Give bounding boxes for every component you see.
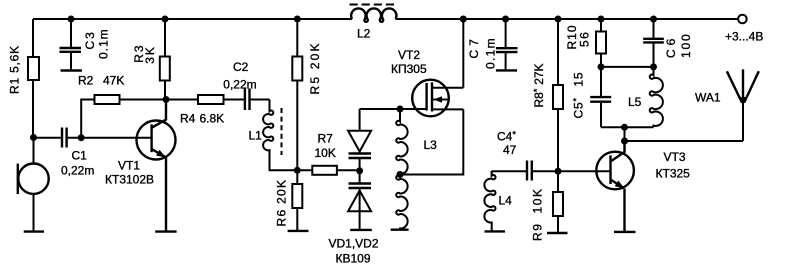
node C1 right / base junction	[78, 134, 85, 141]
inductor L4	[484, 171, 512, 231]
svg-text:6.8K: 6.8K	[200, 112, 225, 126]
svg-text:56: 56	[578, 31, 592, 47]
svg-text:КВ109: КВ109	[336, 252, 371, 266]
varicap VD1	[348, 131, 371, 158]
capacitor C3	[60, 19, 111, 69]
svg-text:R5 20K: R5 20K	[308, 41, 322, 94]
transistor VT1	[105, 100, 176, 231]
node collector/antenna	[621, 138, 628, 145]
ground under R9	[547, 232, 568, 234]
node collector VT1 junction	[163, 96, 170, 103]
svg-text:C5* 15: C5* 15	[572, 72, 586, 119]
wire varicap top / gate VT2	[360, 109, 427, 153]
svg-text:0.1m: 0.1m	[484, 37, 498, 69]
svg-text:VT3: VT3	[664, 150, 686, 164]
ground under C7	[496, 69, 517, 71]
svg-text:0.1m: 0.1m	[97, 28, 111, 59]
svg-text:0,22m: 0,22m	[223, 78, 256, 92]
svg-text:КП305: КП305	[391, 62, 427, 76]
svg-text:3K: 3K	[143, 45, 157, 64]
svg-text:C2: C2	[233, 60, 249, 74]
svg-text:L5: L5	[628, 95, 642, 109]
svg-text:47K: 47K	[103, 74, 124, 88]
svg-text:100: 100	[679, 33, 693, 58]
svg-text:C1: C1	[72, 149, 88, 163]
capacitor C2	[223, 60, 269, 110]
resistor R3	[132, 19, 170, 100]
node top rail C3	[68, 16, 75, 23]
wire tank top	[601, 66, 654, 68]
svg-text:C4*: C4*	[497, 130, 516, 144]
node R8/C4/R9/base VT3	[555, 168, 562, 175]
resistor R2	[78, 74, 166, 138]
svg-text:R2: R2	[78, 74, 94, 88]
svg-text:VD1,VD2: VD1,VD2	[329, 237, 379, 251]
svg-text:R4: R4	[180, 112, 196, 126]
ground under L3	[391, 228, 409, 230]
svg-text:+3...4В: +3...4В	[725, 30, 763, 44]
node L3 tap	[397, 171, 404, 178]
wire antenna feed	[625, 104, 744, 142]
node top rail R10	[598, 16, 605, 23]
svg-text:L1: L1	[249, 129, 263, 143]
resistor R6	[274, 170, 302, 230]
node tank top left	[598, 63, 605, 70]
antenna WA1	[695, 69, 759, 105]
svg-text:R7: R7	[318, 132, 334, 146]
ground under microphone	[24, 230, 44, 232]
svg-text:L3: L3	[424, 138, 438, 152]
wire base VT3	[558, 170, 611, 172]
svg-text:R6 20K: R6 20K	[274, 179, 288, 227]
ground under R6	[288, 230, 309, 232]
capacitor C1	[34, 128, 95, 178]
ground under VD2	[350, 229, 372, 231]
resistor R1	[7, 19, 39, 137]
svg-text:L4: L4	[499, 194, 513, 208]
node gate / L3 top	[397, 106, 404, 113]
microphone BM	[18, 137, 49, 231]
svg-text:C3: C3	[83, 30, 97, 49]
transistor VT3	[596, 141, 690, 231]
wire tank bottom	[601, 126, 654, 128]
svg-text:КТ325: КТ325	[656, 167, 691, 181]
node C1 left	[30, 134, 37, 141]
svg-text:R9 10K: R9 10K	[531, 187, 545, 241]
wire varicap middle	[359, 158, 361, 184]
inductor L3	[396, 109, 437, 229]
svg-text:47: 47	[503, 143, 517, 157]
ground under VT3	[614, 231, 636, 233]
node top rail VT2 drain	[460, 16, 467, 23]
capacitor C7	[467, 19, 518, 69]
inductor L2	[350, 5, 397, 41]
resistor R5	[292, 19, 322, 170]
resistor R7	[297, 132, 359, 175]
ground under L4	[485, 230, 506, 232]
resistor R9	[531, 171, 564, 241]
node varicap junction	[356, 167, 363, 174]
svg-text:L2: L2	[357, 27, 371, 41]
capacitor C4	[492, 130, 558, 181]
svg-text:0,22m: 0,22m	[61, 164, 94, 178]
resistor R4	[166, 95, 244, 126]
svg-text:WA1: WA1	[695, 91, 721, 105]
resistor R8	[532, 19, 563, 171]
svg-text:КТ3102В: КТ3102В	[105, 173, 154, 187]
inductor L1	[249, 100, 298, 171]
wire top rail right segment	[396, 18, 739, 20]
inductor L5	[628, 67, 663, 127]
svg-text:VT2: VT2	[398, 48, 420, 62]
varicap VD2	[329, 184, 379, 266]
capacitor C6	[643, 19, 693, 67]
node tank top right	[650, 63, 657, 70]
node tank bottom	[621, 124, 628, 131]
wire base of VT1	[81, 137, 150, 139]
node L1/R5/R6/R7	[294, 167, 301, 174]
resistor R10	[565, 19, 606, 67]
node top rail C7	[502, 16, 509, 23]
node top rail C6	[650, 16, 657, 23]
svg-text:C7: C7	[467, 35, 481, 58]
svg-text:R8* 27K: R8* 27K	[532, 63, 546, 107]
wire tank to collector	[624, 127, 626, 152]
node top rail R5	[294, 16, 301, 23]
transistor VT2	[391, 19, 463, 175]
node top rail R3	[162, 16, 169, 23]
svg-text:VT1: VT1	[118, 159, 140, 173]
svg-text:R1 5,6K: R1 5,6K	[7, 45, 21, 94]
wire top rail left segment	[33, 18, 352, 20]
capacitor C5	[572, 67, 612, 127]
svg-text:10K: 10K	[315, 146, 336, 160]
terminal +3...4V	[725, 15, 763, 44]
node top rail R8	[555, 16, 562, 23]
ground under C3	[61, 69, 83, 71]
svg-text:C6: C6	[664, 35, 678, 58]
ground under VT1	[155, 230, 176, 232]
